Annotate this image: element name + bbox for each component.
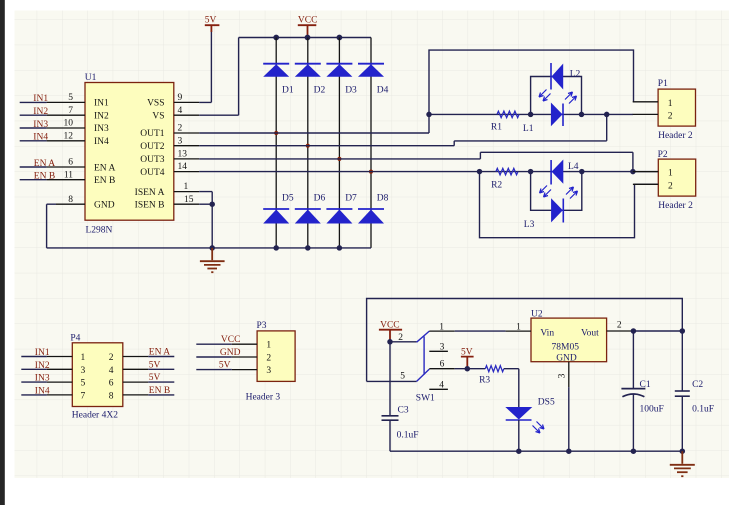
U1 left pins	[47, 102, 85, 204]
junction row1/OUT2 riser	[604, 112, 610, 118]
svg-text:1: 1	[81, 353, 86, 363]
wire 5V loop (Vout to switch pin 5)	[367, 299, 683, 382]
wire diode column 3	[338, 38, 340, 248]
svg-text:7: 7	[81, 391, 86, 401]
diode D3	[326, 64, 357, 96]
wire DS5 to rail	[518, 420, 520, 451]
diode D2	[295, 64, 326, 96]
svg-text:DS5: DS5	[538, 398, 555, 408]
junction row2 right LED node	[579, 169, 585, 175]
ground (below U1)	[200, 248, 225, 272]
P4 left pins	[47, 357, 72, 395]
junction row2/P2 pin1 node	[630, 169, 636, 175]
junction rail / C2 / ground	[680, 448, 686, 454]
wire L3 lower branch	[531, 172, 582, 211]
svg-text:5V: 5V	[149, 360, 161, 370]
svg-text:2: 2	[109, 353, 114, 363]
svg-text:IN1: IN1	[94, 99, 109, 109]
svg-text:P1: P1	[658, 79, 668, 89]
ground (bottom right)	[670, 451, 695, 476]
wire switch pin1 to U2 Vin	[455, 330, 506, 332]
svg-text:D8: D8	[377, 194, 389, 204]
svg-text:C3: C3	[398, 405, 409, 415]
svg-text:R3: R3	[479, 376, 490, 386]
svg-text:5: 5	[81, 379, 86, 389]
svg-text:VCC: VCC	[221, 335, 241, 345]
svg-text:OUT1: OUT1	[140, 129, 165, 139]
svg-text:IN1: IN1	[33, 94, 48, 104]
junction dots on VCC bus	[273, 35, 342, 41]
power symbol VCC (U2 section)	[379, 321, 402, 342]
junction rail / U2 GND	[566, 448, 572, 454]
svg-text:P3: P3	[257, 321, 267, 331]
U1 pin names (inside body)	[94, 99, 165, 211]
capacitor C2	[675, 331, 714, 451]
wire L2 upper branch	[531, 77, 582, 115]
svg-text:D1: D1	[282, 85, 294, 95]
diode D4	[358, 64, 389, 96]
U1 pin numbers	[64, 93, 194, 205]
diode D8	[358, 194, 389, 224]
U2 pin 1	[506, 330, 531, 332]
wire row1 (node A to P1 pin 2)	[429, 113, 633, 115]
svg-text:3: 3	[178, 136, 183, 146]
svg-text:3: 3	[266, 366, 271, 376]
svg-text:D4: D4	[377, 85, 389, 95]
svg-text:OUT3: OUT3	[140, 155, 165, 165]
svg-text:OUT4: OUT4	[140, 168, 165, 178]
wire GND pin 8 to bottom rail	[47, 204, 56, 248]
svg-text:EN A: EN A	[149, 348, 171, 358]
LED L3 (lower, pointing right)	[524, 186, 578, 231]
svg-text:VSS: VSS	[147, 99, 164, 109]
svg-text:IN4: IN4	[33, 133, 48, 143]
svg-text:IN2: IN2	[94, 111, 109, 121]
resistor R3	[479, 366, 504, 386]
svg-text:IN3: IN3	[33, 120, 48, 130]
wire VCC top bus	[239, 37, 371, 39]
svg-text:100uF: 100uF	[640, 405, 664, 415]
svg-text:L1: L1	[523, 124, 534, 134]
svg-text:14: 14	[178, 162, 188, 172]
capacitor C1 (electrolytic)	[621, 331, 663, 451]
power symbol 5V (top left)	[205, 16, 220, 33]
svg-text:L4: L4	[568, 162, 579, 172]
resistor R2	[491, 168, 518, 190]
left window bar	[0, 0, 5, 505]
svg-text:5V: 5V	[205, 16, 217, 26]
junction Vout / C2	[680, 328, 686, 334]
P2 pin 1	[633, 171, 658, 173]
junction D1/OUT1	[274, 131, 278, 135]
svg-text:EN B: EN B	[149, 386, 170, 396]
svg-text:IN1: IN1	[35, 348, 50, 358]
svg-text:2: 2	[668, 112, 673, 122]
svg-text:3: 3	[558, 373, 568, 378]
junction VCC / C3 node	[387, 339, 393, 345]
LED DS5 (pointing down)	[505, 398, 555, 433]
P1 pin 1	[633, 101, 658, 103]
U2 pin 2	[607, 330, 632, 332]
svg-text:13: 13	[178, 150, 188, 160]
junction node A	[426, 112, 432, 118]
wire R3 to DS5	[504, 369, 519, 407]
svg-text:3: 3	[81, 366, 86, 376]
svg-text:12: 12	[64, 131, 74, 141]
junction ISEN B node	[209, 201, 215, 207]
svg-text:GND: GND	[556, 354, 577, 364]
wire OUT2	[199, 114, 607, 145]
svg-text:Header 4X2: Header 4X2	[72, 411, 118, 421]
wire OUT4 / row2	[199, 171, 658, 173]
junction row1 right LED node	[579, 112, 585, 118]
svg-text:10: 10	[64, 119, 74, 129]
wire ISEN A	[199, 192, 212, 248]
wire VCC to switch pin 2	[390, 341, 417, 343]
svg-text:D3: D3	[345, 85, 357, 95]
svg-text:2: 2	[617, 321, 622, 331]
svg-text:2: 2	[178, 124, 183, 134]
diode D7	[326, 194, 357, 224]
svg-text:5V: 5V	[219, 361, 231, 371]
junction row2 frame node	[477, 169, 483, 175]
P3 pins	[232, 344, 257, 369]
svg-text:GND: GND	[94, 200, 115, 210]
junction rail / DS5	[516, 448, 522, 454]
svg-text:8: 8	[109, 391, 114, 401]
junction Vout / C1	[631, 328, 637, 334]
wire bottom ground rail	[47, 247, 371, 249]
wire OUT3	[199, 152, 633, 171]
P2 pin 2	[633, 183, 658, 185]
power symbol VCC (top)	[298, 16, 318, 38]
U1 right pins	[174, 102, 199, 204]
svg-text:P2: P2	[658, 150, 668, 160]
svg-text:VS: VS	[152, 111, 164, 121]
svg-text:Vin: Vin	[540, 328, 554, 338]
junction ground rail / D7	[337, 245, 343, 251]
svg-text:D7: D7	[345, 194, 357, 204]
diode D5	[263, 194, 294, 224]
LED L2 (upper, pointing left)	[539, 63, 581, 101]
svg-text:OUT2: OUT2	[140, 142, 165, 152]
svg-text:Header 2: Header 2	[658, 131, 693, 141]
svg-text:L2: L2	[570, 69, 581, 79]
svg-text:D6: D6	[314, 194, 326, 204]
svg-text:U1: U1	[85, 73, 97, 83]
svg-text:5: 5	[400, 372, 405, 382]
connector P3	[246, 321, 296, 402]
wire stubs IN1-IN4 EN A EN B (left of U1)	[20, 102, 47, 179]
P4 left wire stubs	[21, 357, 47, 395]
P1 pin 2	[633, 113, 658, 115]
svg-text:ISEN A: ISEN A	[135, 188, 165, 198]
wire VS pin 4 to VCC bus	[199, 38, 238, 116]
svg-text:6: 6	[68, 158, 73, 168]
svg-text:78M05: 78M05	[552, 343, 580, 353]
wire diode column 4	[370, 38, 372, 248]
junction 5V / pin6	[465, 366, 471, 372]
svg-text:L298N: L298N	[86, 225, 113, 235]
svg-text:1: 1	[184, 182, 189, 192]
capacitor C3	[382, 342, 419, 451]
junction row1 left LED node	[528, 112, 534, 118]
svg-text:VCC: VCC	[298, 16, 318, 26]
P4 right wire stubs	[148, 357, 174, 395]
junction D4/OUT4	[369, 170, 373, 174]
svg-text:0.1uF: 0.1uF	[692, 405, 714, 415]
connector P4	[70, 334, 122, 421]
svg-text:IN2: IN2	[33, 107, 48, 117]
svg-text:IN2: IN2	[35, 361, 50, 371]
svg-text:R2: R2	[491, 181, 502, 191]
LED L1 (on row, pointing right)	[523, 92, 577, 134]
svg-text:EN A: EN A	[34, 159, 56, 169]
svg-text:EN A: EN A	[94, 164, 116, 174]
junction D3/OUT3	[337, 157, 341, 161]
junction ground rail / D5	[273, 245, 279, 251]
svg-text:P4: P4	[70, 334, 80, 344]
wire node A to P1 pin 1 (top link)	[429, 50, 634, 114]
svg-text:Header 3: Header 3	[246, 392, 281, 402]
svg-text:0.1uF: 0.1uF	[397, 431, 419, 441]
svg-text:U2: U2	[531, 310, 543, 320]
wire bottom frame to P2 pin 2	[480, 172, 659, 238]
svg-text:Vout: Vout	[581, 328, 599, 338]
svg-text:2: 2	[266, 353, 271, 363]
svg-text:EN B: EN B	[34, 172, 55, 182]
wire OUT1	[199, 114, 429, 133]
switch SW1	[398, 322, 454, 403]
svg-text:7: 7	[68, 106, 73, 116]
svg-text:2: 2	[668, 181, 673, 191]
svg-text:4: 4	[178, 106, 183, 116]
wire ISEN B	[199, 203, 212, 205]
svg-text:5V: 5V	[149, 373, 161, 383]
svg-text:L3: L3	[524, 220, 535, 230]
wire bottom rail (U2 section)	[390, 450, 682, 452]
svg-text:1: 1	[266, 341, 271, 351]
junction ground rail / ISEN	[209, 245, 215, 251]
connector P2	[658, 150, 696, 211]
op-amp driver IC U1 L298N body	[85, 73, 174, 236]
regulator U2 78M05	[516, 310, 622, 379]
svg-text:ISEN B: ISEN B	[135, 200, 165, 210]
svg-text:IN3: IN3	[94, 124, 109, 134]
LED L4 (on row, pointing left)	[551, 160, 579, 185]
svg-text:9: 9	[178, 93, 183, 103]
U2 pin 3	[568, 362, 570, 387]
svg-text:D5: D5	[282, 194, 294, 204]
svg-text:IN4: IN4	[94, 137, 109, 147]
svg-text:EN B: EN B	[94, 176, 115, 186]
wire 5V to VSS pin 9	[199, 32, 211, 102]
wire Vout row	[632, 330, 682, 332]
svg-text:R1: R1	[491, 123, 502, 133]
svg-text:1: 1	[668, 99, 673, 109]
connector P1	[658, 79, 696, 141]
junction D2/OUT2	[306, 144, 310, 148]
svg-text:8: 8	[68, 195, 73, 205]
svg-text:6: 6	[109, 379, 114, 389]
svg-text:GND: GND	[220, 348, 241, 358]
svg-text:4: 4	[109, 366, 114, 376]
svg-text:SW1: SW1	[416, 394, 435, 404]
svg-text:11: 11	[64, 170, 73, 180]
wire U2 pin3 to rail	[568, 387, 570, 451]
diode D1	[263, 64, 294, 96]
svg-text:C1: C1	[640, 380, 651, 390]
svg-text:1: 1	[668, 169, 673, 179]
svg-text:5: 5	[68, 93, 73, 103]
diode D6	[295, 194, 326, 224]
wire diode column 1	[275, 38, 277, 248]
wire switch pin6 to R3	[455, 368, 486, 370]
resistor R1	[491, 111, 519, 132]
svg-text:IN3: IN3	[35, 374, 50, 384]
wire diode column 2	[307, 38, 309, 248]
svg-text:C2: C2	[692, 380, 703, 390]
junction rail / C1	[631, 448, 637, 454]
svg-text:2: 2	[398, 333, 403, 343]
svg-text:15: 15	[184, 195, 194, 205]
svg-text:Header 2: Header 2	[658, 201, 693, 211]
svg-text:IN4: IN4	[35, 386, 50, 396]
power symbol 5V (above R3)	[461, 348, 474, 369]
junction ground rail / D6	[305, 245, 311, 251]
P4 right pins	[123, 357, 148, 395]
svg-text:D2: D2	[314, 85, 326, 95]
P3 wire stubs	[196, 344, 232, 369]
junction row2 left LED node	[528, 169, 534, 175]
